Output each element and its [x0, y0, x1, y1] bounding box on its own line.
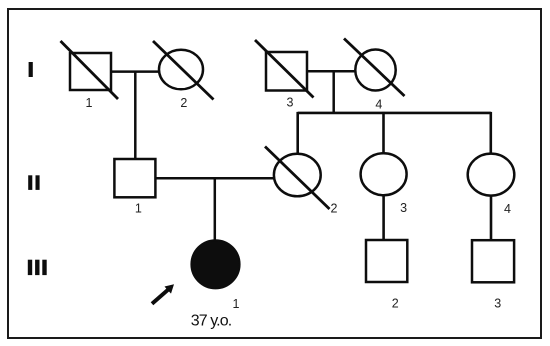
individual II-4 female (circle) — [468, 154, 515, 196]
label 3 (I-3) — [287, 96, 294, 110]
label 3 (II-3) — [400, 201, 407, 215]
individual II-3 female (circle) — [361, 153, 407, 195]
wire: sibship line generation II — [298, 112, 491, 115]
individual III-3 male (square) — [472, 240, 514, 282]
wire: couple line I-3 to I-4 — [307, 70, 355, 73]
svg-text:1: 1 — [86, 96, 93, 110]
label 4 (II-4) — [504, 202, 511, 216]
label 2 (I-2) — [180, 96, 187, 110]
individual I-2 deceased female (circle) — [153, 41, 214, 100]
svg-text:4: 4 — [504, 202, 511, 216]
wire: couple line II-1 to II-2 — [155, 177, 274, 180]
svg-text:3: 3 — [494, 297, 501, 311]
individual II-2 deceased female (circle) — [265, 147, 330, 210]
individual II-1 male (square) — [114, 159, 155, 197]
svg-text:2: 2 — [392, 297, 399, 311]
svg-text:1: 1 — [135, 202, 142, 216]
label 1 (III-1) — [233, 297, 240, 311]
label 3 (III-3) — [494, 297, 501, 311]
age annotation 37 y.o. — [191, 313, 232, 330]
label 1 (II-1) — [135, 202, 142, 216]
wire: descent line II-4 to III-3 — [490, 196, 493, 241]
individual III-1 affected female proband (filled circle) — [191, 240, 239, 288]
label 2 (II-2) — [331, 201, 338, 215]
svg-text:4: 4 — [375, 97, 382, 111]
svg-text:1: 1 — [233, 297, 240, 311]
wire: descent line couple I-3/I-4 to sibship line — [332, 71, 335, 113]
svg-text:2: 2 — [180, 96, 187, 110]
individual III-2 male (square) — [366, 240, 407, 282]
generation label II — [28, 175, 39, 190]
individual I-1 deceased male (square) — [61, 41, 119, 99]
generation label I — [29, 62, 33, 77]
individual I-3 deceased male (square) — [255, 40, 314, 98]
label 4 (I-4) — [375, 97, 382, 111]
svg-text:37 y.o.: 37 y.o. — [191, 313, 232, 330]
label 2 (III-2) — [392, 297, 399, 311]
wire: descent line II-3 to III-2 — [382, 195, 385, 240]
wire: descent line couple II-1/II-2 to III-1 — [214, 178, 217, 241]
svg-text:2: 2 — [331, 201, 338, 215]
generation label III — [28, 260, 47, 275]
wire: descent line couple I-1/I-2 to II-1 — [134, 72, 137, 159]
label 1 (I-1) — [86, 96, 93, 110]
wire: drop to II-4 — [489, 112, 492, 155]
proband arrow — [151, 284, 174, 305]
svg-text:3: 3 — [400, 201, 407, 215]
wire: drop to II-3 — [382, 112, 385, 154]
svg-text:3: 3 — [287, 96, 294, 110]
individual I-4 deceased female (circle) — [344, 39, 405, 97]
wire: drop to II-2 — [296, 112, 299, 155]
wire: couple line I-1 to I-2 — [111, 70, 159, 73]
